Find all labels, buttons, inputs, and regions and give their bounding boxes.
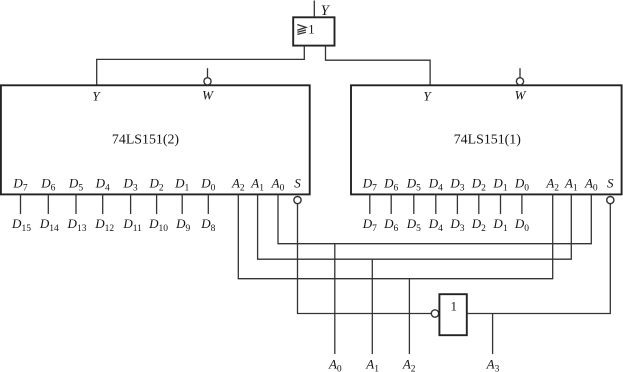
svg-text:S: S (294, 175, 301, 190)
svg-text:1: 1 (450, 298, 457, 313)
svg-text:S: S (607, 175, 614, 190)
svg-text:1: 1 (308, 23, 314, 37)
svg-text:74LS151(2): 74LS151(2) (112, 133, 180, 148)
svg-text:W: W (202, 88, 214, 103)
svg-text:74LS151(1): 74LS151(1) (454, 133, 522, 148)
svg-text:W: W (515, 88, 527, 103)
